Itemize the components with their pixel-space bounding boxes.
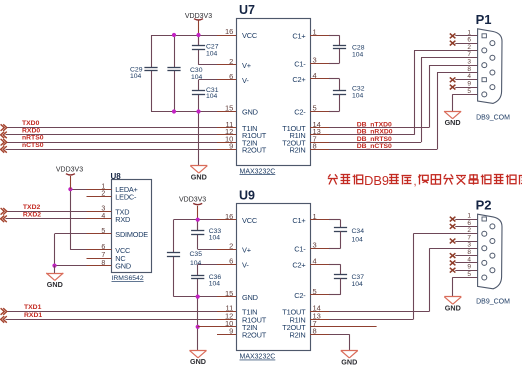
- svg-text:GND: GND: [190, 357, 206, 366]
- svg-text:5: 5: [467, 271, 471, 278]
- svg-text:C2-: C2-: [294, 291, 306, 300]
- svg-text:104: 104: [352, 236, 364, 243]
- svg-text:C1+: C1+: [292, 32, 305, 41]
- svg-text:nRTS0: nRTS0: [22, 135, 44, 142]
- svg-text:V+: V+: [242, 246, 251, 255]
- svg-text:VCC: VCC: [242, 216, 258, 225]
- svg-text:DB_nTXD0: DB_nTXD0: [357, 121, 392, 128]
- svg-text:7: 7: [467, 51, 471, 58]
- svg-text:2: 2: [467, 227, 471, 234]
- svg-text:C2+: C2+: [292, 261, 305, 270]
- svg-text:GND: GND: [445, 304, 461, 313]
- svg-text:TXD0: TXD0: [22, 120, 40, 127]
- svg-text:104: 104: [191, 74, 203, 81]
- svg-text:GND: GND: [47, 280, 63, 289]
- svg-text:9: 9: [467, 264, 471, 271]
- svg-text:3: 3: [467, 59, 471, 66]
- svg-text:IRMS6542: IRMS6542: [112, 275, 144, 282]
- svg-text:MAX3232C: MAX3232C: [240, 168, 276, 175]
- svg-text:VCC: VCC: [242, 31, 258, 40]
- svg-text:V+: V+: [242, 61, 251, 70]
- svg-text:DB_nRXD0: DB_nRXD0: [357, 129, 393, 136]
- svg-text:2: 2: [467, 44, 471, 51]
- svg-text:P2: P2: [476, 197, 492, 212]
- svg-text:5: 5: [467, 88, 471, 95]
- svg-text:C1-: C1-: [294, 59, 306, 68]
- svg-text:GND: GND: [115, 262, 131, 271]
- svg-text:RXD: RXD: [115, 215, 130, 224]
- svg-text:6: 6: [467, 37, 471, 44]
- svg-text:R2IN: R2IN: [289, 330, 305, 339]
- svg-text:C1-: C1-: [294, 245, 306, 254]
- svg-text:DB9_COM: DB9_COM: [476, 299, 510, 306]
- svg-text:nCTS0: nCTS0: [22, 142, 44, 149]
- svg-text:DB_nCTS0: DB_nCTS0: [357, 143, 392, 150]
- svg-text:C35: C35: [190, 251, 203, 258]
- svg-text:8: 8: [467, 66, 471, 73]
- svg-text:U9: U9: [239, 188, 255, 202]
- svg-text:104: 104: [352, 51, 364, 58]
- svg-text:P1: P1: [476, 12, 492, 27]
- svg-text:4: 4: [467, 73, 471, 80]
- svg-text:TXD2: TXD2: [23, 204, 41, 211]
- svg-text:7: 7: [467, 234, 471, 241]
- svg-text:104: 104: [206, 93, 218, 100]
- svg-text:104: 104: [352, 92, 364, 99]
- svg-text:104: 104: [206, 51, 218, 58]
- svg-text:TXD1: TXD1: [24, 304, 42, 311]
- svg-text:104: 104: [209, 280, 221, 287]
- svg-text:SDIMODE: SDIMODE: [115, 230, 148, 239]
- svg-text:DB9_COM: DB9_COM: [476, 115, 510, 122]
- svg-text:104: 104: [190, 260, 202, 267]
- svg-text:8: 8: [467, 249, 471, 256]
- svg-text:104: 104: [352, 281, 364, 288]
- svg-text:VDD3V3: VDD3V3: [56, 167, 83, 174]
- svg-text:C2-: C2-: [294, 108, 306, 117]
- svg-text:R2OUT: R2OUT: [242, 330, 267, 339]
- svg-text:VDD3V3: VDD3V3: [185, 13, 212, 20]
- svg-text:GND: GND: [242, 108, 258, 117]
- svg-text:LEDC-: LEDC-: [115, 192, 137, 201]
- svg-text:DB9: DB9: [364, 173, 389, 188]
- svg-text:GND: GND: [341, 357, 357, 366]
- svg-text:C37: C37: [352, 274, 365, 281]
- svg-text:DB_nRTS0: DB_nRTS0: [357, 136, 392, 143]
- svg-text:104: 104: [130, 73, 142, 80]
- svg-text:1: 1: [467, 29, 471, 36]
- svg-text:MAX3232C: MAX3232C: [240, 354, 276, 361]
- svg-text:C32: C32: [352, 85, 365, 92]
- svg-text:4: 4: [467, 256, 471, 263]
- svg-text:3: 3: [467, 242, 471, 249]
- svg-text:C27: C27: [206, 44, 219, 51]
- svg-text:16: 16: [225, 27, 233, 36]
- svg-text:6: 6: [467, 220, 471, 227]
- svg-text:RXD1: RXD1: [24, 312, 42, 319]
- svg-text:RXD0: RXD0: [22, 127, 40, 134]
- svg-text:RXD2: RXD2: [23, 212, 41, 219]
- svg-text:9: 9: [467, 81, 471, 88]
- svg-text:1: 1: [467, 213, 471, 220]
- svg-text:C34: C34: [352, 228, 365, 235]
- svg-text:V-: V-: [242, 261, 249, 270]
- svg-text:V-: V-: [242, 76, 249, 85]
- svg-text:U8: U8: [111, 172, 122, 181]
- svg-text:R2IN: R2IN: [289, 146, 305, 155]
- svg-text:U7: U7: [239, 3, 255, 17]
- svg-text:C2+: C2+: [292, 75, 305, 84]
- svg-text:,: ,: [414, 176, 417, 188]
- svg-text:GND: GND: [242, 293, 258, 302]
- svg-text:C1+: C1+: [292, 216, 305, 225]
- svg-text:104: 104: [209, 234, 221, 241]
- svg-text:GND: GND: [445, 118, 461, 127]
- svg-text:R2OUT: R2OUT: [242, 146, 267, 155]
- svg-text:GND: GND: [191, 173, 207, 182]
- svg-text:VDD3V3: VDD3V3: [179, 197, 206, 204]
